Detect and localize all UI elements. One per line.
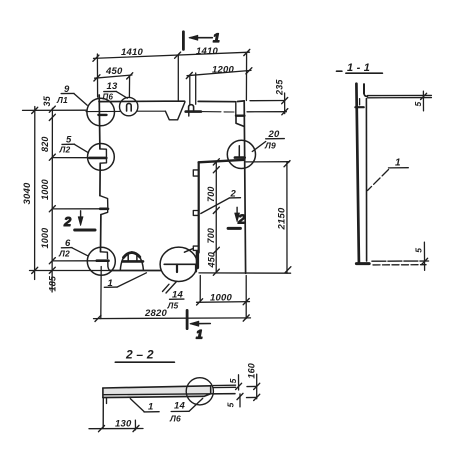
- svg-text:235: 235: [275, 79, 285, 96]
- tick: [213, 207, 219, 213]
- top ext line to left dims: [23, 109, 87, 111]
- svg-text:2: 2: [237, 212, 246, 227]
- tick: [32, 107, 38, 113]
- top panel double line: [368, 95, 432, 97]
- tick: [244, 49, 250, 55]
- detail circle 9/L1: [87, 98, 115, 126]
- 5 bottom dim: [239, 394, 241, 407]
- title dash: [337, 70, 342, 72]
- svg-text:1 - 1: 1 - 1: [347, 62, 370, 74]
- tick: [237, 393, 243, 399]
- top notch: [165, 102, 185, 120]
- svg-text:5: 5: [413, 248, 423, 253]
- detail circle 6/L2: [87, 247, 115, 275]
- svg-text:1410: 1410: [121, 47, 143, 58]
- circle3 lower jog to bottom edge: [108, 262, 111, 271]
- dome lifting loop bottom: [120, 252, 143, 270]
- svg-text:185: 185: [48, 275, 58, 291]
- svg-text:Л1: Л1: [56, 95, 68, 105]
- detail circle 20/L9: [227, 140, 255, 168]
- corner blob junction: [196, 252, 199, 268]
- leader 14/L5: [163, 282, 177, 294]
- dim 450 line: [95, 75, 132, 78]
- top edge: [99, 100, 185, 102]
- plate bar circle2: [90, 157, 107, 160]
- leader 6: [72, 248, 88, 256]
- detail circle 14/L5: [160, 247, 197, 281]
- dim line 1410+1410: [94, 52, 250, 58]
- top-right plate bar: [236, 114, 244, 116]
- member right vertical top: [363, 84, 365, 93]
- tick: [99, 426, 105, 432]
- tick: [197, 299, 203, 305]
- 5 top dim: [238, 375, 240, 390]
- bottom 5 dim vertical: [423, 242, 425, 270]
- tick: [254, 394, 260, 400]
- detail circle 14/L6: [186, 378, 213, 405]
- tick: [243, 315, 249, 321]
- member top hook: [364, 94, 368, 97]
- leader 1 in 2-2: [130, 399, 144, 412]
- svg-text:5: 5: [413, 102, 423, 107]
- ext 450 right: [128, 76, 130, 97]
- dim 1200 line: [187, 70, 251, 75]
- svg-text:450: 450: [105, 66, 123, 77]
- svg-text:820: 820: [40, 136, 50, 152]
- member top foot bar: [355, 106, 363, 108]
- svg-text:1000: 1000: [40, 179, 50, 200]
- member end hook: [204, 386, 211, 396]
- svg-text:1: 1: [213, 31, 220, 45]
- member bottom line: [103, 396, 204, 397]
- ext right edge down: [245, 276, 247, 319]
- svg-text:2820: 2820: [144, 308, 167, 319]
- ext 1200 left (loop legs): [190, 73, 196, 104]
- top inner face dash line: [86, 110, 234, 113]
- loop recess plate bar: [186, 110, 201, 113]
- svg-text:П6: П6: [103, 93, 114, 102]
- leader 2: [201, 198, 230, 214]
- section 1 bottom bar: [186, 310, 189, 328]
- left pocket lower: [101, 210, 108, 215]
- left edge upper: [98, 95, 101, 149]
- tick: [421, 93, 427, 99]
- svg-text:5: 5: [226, 402, 236, 407]
- flange tick B in detail circle: [195, 265, 197, 271]
- hook in circle 20: [238, 146, 240, 157]
- svg-text:35: 35: [42, 95, 52, 106]
- flange tick A in detail circle: [176, 265, 178, 273]
- tab 3: [193, 246, 198, 250]
- svg-text:130: 130: [115, 419, 132, 430]
- dim 2150 vertical: [286, 162, 288, 273]
- section 2 right bar: [228, 227, 240, 230]
- svg-text:1410: 1410: [196, 46, 218, 57]
- svg-text:Л2: Л2: [58, 249, 70, 259]
- title underline: [115, 361, 174, 363]
- tick: [93, 55, 99, 61]
- top 5 dim vertical: [422, 91, 424, 111]
- tick: [282, 98, 288, 104]
- loop in small circle: [127, 103, 132, 111]
- dim 235 ext axis: [247, 111, 286, 113]
- inner cutout vertical: [198, 162, 200, 252]
- tab 1: [193, 170, 198, 176]
- inner cutout top line: [199, 160, 245, 163]
- tick: [246, 68, 252, 74]
- tick: [49, 154, 55, 160]
- tick: [133, 425, 139, 431]
- svg-text:2150: 2150: [277, 207, 288, 230]
- ext line mid: [177, 56, 179, 101]
- diagonal stub in detail circle: [184, 249, 193, 253]
- svg-text:3040: 3040: [22, 182, 33, 204]
- corner plate bar top-left: [98, 114, 106, 116]
- tick: [422, 258, 428, 264]
- tick: [284, 161, 290, 167]
- tick: [186, 72, 192, 78]
- leader 1 section: [368, 170, 389, 191]
- top-right notch: [236, 117, 244, 127]
- tick: [236, 383, 242, 389]
- plate bar circle 20: [235, 156, 245, 159]
- dome thick top arc: [124, 253, 140, 258]
- bottom edge: [110, 270, 161, 272]
- ext bottom edge left: [30, 270, 111, 272]
- svg-text:5: 5: [228, 378, 238, 383]
- member inner line: [104, 394, 235, 395]
- plate bar circle3: [97, 259, 109, 262]
- circle2 jog: [100, 149, 107, 163]
- 160 tick bars: [247, 386, 257, 397]
- tick: [213, 247, 219, 253]
- leader 14/L6: [189, 398, 203, 411]
- tick: [127, 73, 133, 79]
- svg-text:1000: 1000: [40, 228, 50, 249]
- dim 1000 line: [197, 301, 250, 304]
- ext line plate2: [52, 157, 89, 159]
- left edge mid: [99, 163, 101, 195]
- svg-text:160: 160: [247, 363, 257, 379]
- ext line plate3: [52, 260, 96, 262]
- tick: [213, 269, 219, 275]
- bottom line right portion: [199, 272, 291, 274]
- dome base bar: [122, 260, 143, 263]
- tick: [49, 267, 55, 273]
- section 1 bottom arrow: [191, 323, 210, 325]
- svg-text:700: 700: [206, 228, 216, 244]
- leader 1: [117, 273, 146, 287]
- circle3 jog: [101, 252, 108, 259]
- tick: [49, 114, 55, 120]
- ext line right: [245, 53, 247, 101]
- member bottom foot: [356, 262, 369, 265]
- left pocket: [100, 196, 108, 208]
- tick: [213, 167, 219, 173]
- svg-text:1: 1: [395, 158, 401, 169]
- bottom edge inside detail circle: [164, 263, 197, 265]
- tick: [49, 106, 55, 112]
- dim line A: [51, 108, 53, 292]
- bottom panel lines: [372, 260, 429, 262]
- plate bar pocket: [100, 208, 108, 211]
- dome inner legs: [128, 255, 137, 261]
- leader 5: [75, 144, 89, 152]
- tick: [243, 299, 249, 305]
- section 2 left arrow: [80, 211, 82, 224]
- tick: [32, 267, 38, 273]
- dim 235 ext top edge: [250, 100, 285, 102]
- dim 235 vertical: [284, 93, 286, 114]
- section 2 right arrow: [236, 207, 238, 219]
- 160 dim vertical: [256, 374, 258, 399]
- lifting loop top (in recess): [189, 105, 194, 112]
- leader 9: [74, 94, 87, 106]
- dim 2820 line: [94, 317, 251, 320]
- top edge right part: [198, 100, 244, 103]
- svg-text:1: 1: [148, 402, 153, 413]
- leader 13: [116, 92, 127, 99]
- tab 2: [193, 211, 198, 216]
- svg-text:450: 450: [207, 252, 217, 269]
- tick: [285, 267, 291, 273]
- tick: [49, 206, 55, 212]
- svg-text:Л5: Л5: [167, 301, 179, 311]
- ext inner vert down: [199, 276, 201, 303]
- ext line left: [96, 54, 98, 97]
- tick: [94, 75, 100, 81]
- left L inner stub: [106, 398, 108, 404]
- svg-text:2: 2: [63, 214, 72, 229]
- svg-text:1: 1: [196, 328, 203, 342]
- member top line: [103, 386, 211, 388]
- dim line B 3040: [34, 107, 36, 280]
- member inner stub: [359, 99, 361, 105]
- svg-text:Л2: Л2: [59, 145, 71, 155]
- member left cap: [102, 388, 104, 398]
- section 2 left bar: [75, 229, 95, 232]
- detail circle 5/L2: [88, 144, 115, 171]
- tick: [49, 258, 55, 264]
- inner dim line: [215, 162, 217, 273]
- tick: [175, 52, 181, 58]
- loop recess stub below: [188, 112, 190, 116]
- detail circle 13/P6: [120, 97, 138, 115]
- svg-text:14: 14: [174, 401, 185, 412]
- leader 20: [252, 142, 265, 152]
- member inner vertical: [365, 99, 367, 261]
- top-right flange stub: [235, 102, 237, 116]
- left edge lower: [100, 215, 102, 252]
- tick: [282, 109, 288, 115]
- svg-text:Л6: Л6: [169, 414, 181, 424]
- ext 130 right: [134, 420, 136, 430]
- svg-text:1000: 1000: [210, 293, 232, 304]
- svg-text:2 – 2: 2 – 2: [125, 348, 154, 362]
- right edge: [244, 101, 245, 273]
- tick: [213, 159, 219, 165]
- section 1 top bar: [182, 32, 185, 50]
- member body tone: [103, 386, 211, 398]
- dim 2150 ext top: [246, 161, 290, 163]
- section 1 top arrow: [190, 37, 212, 39]
- member main vertical: [356, 84, 359, 262]
- svg-text:1200: 1200: [212, 65, 234, 76]
- svg-text:700: 700: [206, 186, 216, 202]
- ext below circle3: [100, 267, 102, 319]
- tick: [95, 315, 101, 321]
- tick: [254, 383, 260, 389]
- ext lines right: [213, 385, 235, 394]
- left L downturn: [102, 398, 104, 428]
- title underline: [346, 72, 383, 74]
- svg-text:13: 13: [107, 81, 118, 92]
- ext line pocket: [52, 208, 100, 210]
